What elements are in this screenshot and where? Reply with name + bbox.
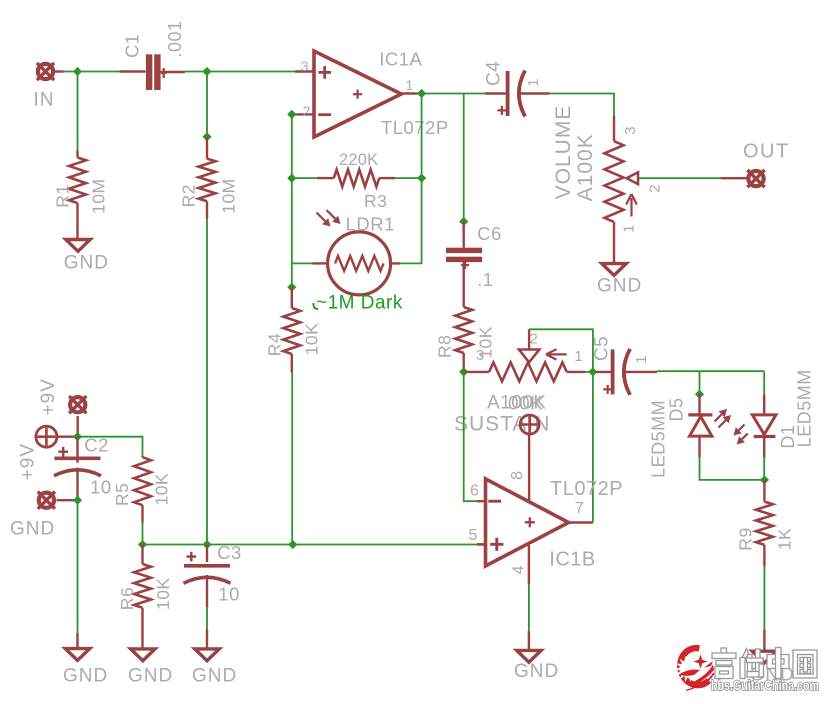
pin 4 of IC1B xyxy=(528,545,530,585)
junction C3 xyxy=(202,540,211,549)
svg-text:3: 3 xyxy=(476,347,485,364)
junction C2 bottom xyxy=(73,496,82,505)
wire output column down to LDR xyxy=(421,94,423,179)
svg-text:TL072P: TL072P xyxy=(550,478,623,500)
svg-text:1: 1 xyxy=(525,78,542,87)
wire pin2 down to R3 xyxy=(291,114,293,178)
wire R5 to bias rail xyxy=(141,505,143,523)
connector pad IN xyxy=(37,63,54,80)
junction above R9 xyxy=(760,475,769,484)
capacitor C6 xyxy=(463,222,465,248)
svg-text:10: 10 xyxy=(90,477,112,498)
wire to C4 xyxy=(485,92,508,94)
connector pad +9V xyxy=(69,396,86,413)
capacitor C3 xyxy=(206,545,208,563)
wire SUSTAIN pin1 to C5 node xyxy=(567,371,585,373)
wire down to D5 xyxy=(699,371,701,391)
pin 3 of IC1A xyxy=(295,70,314,72)
svg-text:.001: .001 xyxy=(165,20,185,57)
ground symbol R9 xyxy=(752,651,776,663)
junction R4 bottom xyxy=(288,540,297,549)
svg-text:4: 4 xyxy=(510,565,527,574)
svg-text:R1: R1 xyxy=(53,184,73,207)
junction above R2 xyxy=(202,132,211,141)
wire R9 to GND xyxy=(763,545,765,567)
svg-text:IN: IN xyxy=(34,90,55,111)
svg-text:10: 10 xyxy=(218,583,240,604)
wire pin2 column down through LDR row xyxy=(291,178,293,287)
junction at C5 xyxy=(588,367,597,376)
capacitor C4 xyxy=(506,71,510,116)
resistor R1 xyxy=(69,158,86,204)
pin 2 of IC1A xyxy=(295,113,314,115)
ground symbol IC1B xyxy=(517,650,541,662)
svg-text:GND: GND xyxy=(192,665,237,686)
svg-text:10M: 10M xyxy=(89,178,109,214)
svg-text:6: 6 xyxy=(470,483,479,500)
junction +9V node xyxy=(73,432,82,441)
light arrows out of D5 xyxy=(715,414,722,421)
ground symbol R6 xyxy=(131,649,155,661)
svg-text:LDR1: LDR1 xyxy=(346,213,395,234)
svg-text:LED5MM: LED5MM xyxy=(648,400,668,478)
svg-text:LED5MM: LED5MM xyxy=(794,369,814,447)
svg-text:7: 7 xyxy=(575,500,584,517)
wire +9V node to R5 xyxy=(78,437,143,456)
svg-text:1K: 1K xyxy=(775,528,795,550)
svg-text:1: 1 xyxy=(406,77,414,93)
wire C4 node down to C6 xyxy=(463,94,465,222)
svg-text:C1: C1 xyxy=(122,34,142,58)
wire R3 right lead xyxy=(379,177,395,179)
light arrows into LDR1 xyxy=(317,213,326,222)
resistor R5 xyxy=(141,456,143,458)
svg-text:C6: C6 xyxy=(477,223,502,244)
wire R6 to GND xyxy=(141,608,143,649)
svg-text:IC1A: IC1A xyxy=(379,49,422,70)
light arrows into D1 xyxy=(739,425,745,431)
svg-text:OUT: OUT xyxy=(743,141,790,163)
ground symbol C3 xyxy=(195,649,219,661)
junction at IC1A output xyxy=(417,89,426,98)
wire output to C4 xyxy=(422,93,485,95)
watermark logo GuitarChina xyxy=(675,647,714,691)
svg-text:C3: C3 xyxy=(217,542,242,563)
wire C1 node down to R2 xyxy=(206,72,208,137)
wire C3 to GND xyxy=(206,575,208,608)
wire C2 to GND pad node xyxy=(76,468,78,501)
potentiometer SUSTAIN A100K xyxy=(489,362,567,381)
svg-text:GND: GND xyxy=(597,276,642,297)
resistor R3 xyxy=(334,170,379,187)
wire C1 to pin3 node xyxy=(161,71,185,73)
capacitor C5 xyxy=(596,371,613,373)
svg-text:+9V: +9V xyxy=(38,378,59,415)
junction R5 xyxy=(138,540,147,549)
junction above D5 xyxy=(695,390,704,399)
svg-text:R8: R8 xyxy=(434,335,454,358)
svg-text:1: 1 xyxy=(633,355,650,364)
wire down to R1 xyxy=(77,72,79,151)
svg-text:C2: C2 xyxy=(84,434,109,455)
wire LDR1 left lead xyxy=(313,262,328,264)
svg-text:R2: R2 xyxy=(179,184,199,207)
svg-text:3: 3 xyxy=(622,126,639,135)
svg-text:10K: 10K xyxy=(302,323,322,356)
wire R2 down to bias node xyxy=(206,201,208,219)
connector pad GND xyxy=(38,492,55,509)
svg-text:GND: GND xyxy=(63,665,108,686)
potentiometer SUSTAIN pin3 lead xyxy=(465,371,489,373)
svg-text:2: 2 xyxy=(303,103,311,119)
value ~1M Dark xyxy=(313,303,318,309)
resistor R9 xyxy=(763,480,765,502)
SUSTAIN wiper arrow xyxy=(519,350,539,363)
pin 1 of IC1A xyxy=(401,92,417,94)
LED D5 xyxy=(698,394,700,415)
svg-text:C5: C5 xyxy=(592,336,613,361)
junction R3 right xyxy=(417,174,426,183)
svg-text:GND: GND xyxy=(514,661,559,682)
wire GND pad to junction xyxy=(57,499,78,501)
svg-text:VOLUME: VOLUME xyxy=(552,105,575,200)
junction above R4 xyxy=(287,283,296,292)
svg-text:GND: GND xyxy=(128,665,173,686)
ground symbol VOLUME xyxy=(602,264,626,276)
ground symbol R1 xyxy=(66,240,90,252)
photoresistor LDR1 xyxy=(328,232,391,295)
wire IN to C1 xyxy=(54,70,64,72)
wire wiper to OUT xyxy=(637,177,639,179)
VOLUME turn arrow xyxy=(626,194,637,217)
svg-text:IC1B: IC1B xyxy=(549,549,595,571)
wire VOLUME pin1 to GND xyxy=(613,222,615,264)
junction at IN node xyxy=(73,67,82,76)
watermark chinese characters xyxy=(712,648,817,679)
wire R4 down to bias node xyxy=(291,354,293,373)
svg-text:2: 2 xyxy=(647,184,664,193)
capacitor C1 xyxy=(146,54,161,90)
ground symbol C2 xyxy=(65,649,89,661)
junction at pin2 xyxy=(287,110,296,119)
wire R1 to GND xyxy=(76,203,78,240)
svg-text:GND: GND xyxy=(64,253,109,274)
svg-text:~1M Dark: ~1M Dark xyxy=(316,293,403,314)
svg-text:GND: GND xyxy=(10,518,55,539)
svg-text:R3: R3 xyxy=(364,191,387,211)
junction R8 bottom xyxy=(459,367,468,376)
wire R8 node down to IC1B pin6 xyxy=(464,372,477,501)
potentiometer VOLUME A100K xyxy=(605,141,624,222)
wire D5 to bottom rail xyxy=(698,436,700,458)
VOLUME wiper arrow xyxy=(627,172,638,184)
wire C6 to R8 xyxy=(463,262,465,307)
svg-text:.1: .1 xyxy=(477,269,493,290)
svg-text:D5: D5 xyxy=(667,397,687,421)
supply symbol +9V xyxy=(36,426,57,447)
wire down to D1 xyxy=(763,371,765,394)
svg-text:00K: 00K xyxy=(508,394,543,415)
svg-text:8: 8 xyxy=(509,470,526,479)
wire +9V to junction xyxy=(76,416,78,434)
center plus of IC1B xyxy=(525,517,535,527)
wire D1 to bottom rail xyxy=(763,437,765,458)
connector pad OUT xyxy=(747,170,764,187)
wire down to GND xyxy=(77,500,79,633)
SUSTAIN turn arrow xyxy=(546,349,567,359)
svg-text:R4: R4 xyxy=(265,333,285,356)
svg-text:3: 3 xyxy=(301,58,309,74)
wire C5 to LED node xyxy=(624,371,658,373)
LED D1 xyxy=(763,394,765,415)
wire C5 node down to IC1B pin7 xyxy=(592,372,594,523)
junction R3 left xyxy=(287,174,296,183)
svg-text:1: 1 xyxy=(574,348,583,365)
svg-text:10M: 10M xyxy=(219,178,239,214)
svg-text:10K: 10K xyxy=(153,577,173,610)
junction above R2 xyxy=(202,67,211,76)
svg-text:R5: R5 xyxy=(112,483,132,506)
resistor R6 xyxy=(141,545,143,565)
pin 8 of IC1B xyxy=(528,434,530,501)
resistor R4 xyxy=(291,287,293,308)
potentiometer VOLUME pin3 lead xyxy=(613,116,615,141)
wire wiper to C5 node xyxy=(529,329,593,372)
svg-text:10K: 10K xyxy=(152,473,172,506)
op-amp IC1A xyxy=(314,51,401,137)
svg-text:TL072P: TL072P xyxy=(381,117,449,138)
svg-text:bbs.GuitarChina.com: bbs.GuitarChina.com xyxy=(711,678,819,693)
svg-text:R6: R6 xyxy=(117,587,137,610)
svg-text:+9V: +9V xyxy=(18,443,39,480)
op-amp IC1B xyxy=(486,479,569,566)
wire R3 left lead xyxy=(292,177,317,179)
wire C4 to volume pot xyxy=(519,92,550,94)
wire R8 to sustain row xyxy=(463,353,465,372)
svg-text:C4: C4 xyxy=(484,61,505,86)
svg-text:1: 1 xyxy=(621,224,638,233)
junction above C6 xyxy=(459,217,468,226)
svg-text:5: 5 xyxy=(469,527,478,544)
pin 6 of IC1B xyxy=(477,500,486,502)
capacitor C2 xyxy=(76,437,78,463)
svg-text:A100K: A100K xyxy=(574,133,597,201)
svg-text:R9: R9 xyxy=(735,527,755,550)
pin 5 of IC1B xyxy=(477,543,486,545)
pin 7 of IC1B xyxy=(569,521,593,523)
center plus of IC1A xyxy=(353,90,362,99)
supply circle V+ for pin 8 xyxy=(520,415,539,434)
resistor R8 xyxy=(455,307,472,353)
svg-text:220K: 220K xyxy=(339,151,378,169)
resistor R2 xyxy=(199,159,216,202)
svg-text:2: 2 xyxy=(530,331,539,348)
bias rail wire to IC1B pin5 xyxy=(143,544,478,546)
